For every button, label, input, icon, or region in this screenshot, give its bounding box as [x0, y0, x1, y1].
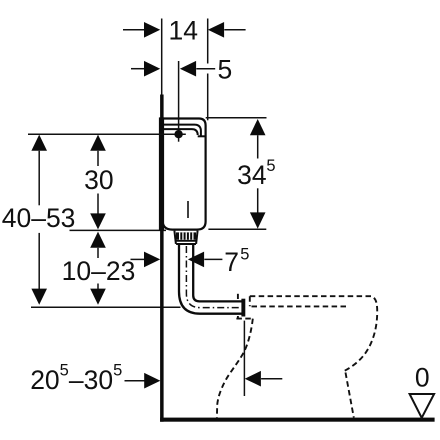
floor: [160, 418, 435, 422]
wall: [160, 95, 164, 422]
svg-text:5: 5: [218, 55, 233, 85]
dim 10-23 down arrow: [97, 284, 99, 290]
cistern lid inner line: [160, 125, 201, 136]
dim 5 right arrow: [180, 61, 196, 77]
dim 10-23 up arrow: [90, 232, 106, 248]
extension line wall top: [161, 19, 163, 95]
extension line fixing horizontal: [28, 133, 186, 135]
cistern back wall line: [159, 117, 164, 230]
flush valve clamp band: [176, 232, 196, 239]
pipe end connector: [241, 299, 245, 317]
svg-text:30: 30: [84, 165, 113, 195]
extension line pipe centre left: [31, 306, 181, 308]
svg-text:5: 5: [266, 157, 275, 175]
dim 34.5 down arrow: [257, 188, 259, 212]
pan socket corner: [249, 296, 251, 306]
level datum triangle: [410, 394, 435, 418]
svg-text:7: 7: [224, 247, 239, 277]
dim 20.5-30.5 pan arrow: [245, 371, 261, 387]
svg-text:0: 0: [415, 363, 430, 393]
svg-text:14: 14: [168, 16, 197, 46]
svg-text:40–53: 40–53: [2, 203, 76, 233]
flush pipe outer: [179, 244, 242, 314]
dim 5 left arrow: [131, 68, 144, 70]
dim 34.5 up arrow: [250, 119, 266, 135]
cistern body: [163, 119, 206, 230]
flush valve right side: [196, 231, 198, 244]
extension line cistern front (dim 14): [207, 19, 209, 64]
flush valve left side: [174, 231, 176, 244]
pan seat line: [252, 305, 347, 307]
svg-text:10–23: 10–23: [62, 256, 136, 286]
extension line pan outlet: [243, 321, 245, 396]
cistern lid seam line: [160, 129, 198, 135]
svg-text:5: 5: [240, 246, 249, 264]
dim 40-53 down arrow: [38, 233, 40, 289]
flush valve flange lines: [176, 240, 197, 242]
pipe centre line vertical: [186, 246, 240, 308]
dim 20.5-30.5 wall arrow: [125, 380, 145, 382]
dim 14 left arrow: [123, 29, 144, 31]
pan top and right outline: [250, 296, 377, 371]
dim 40-53 up arrow: [31, 135, 47, 151]
dim 14 right arrow: [208, 22, 224, 38]
pan spigot hidden edge: [237, 294, 239, 299]
flush pipe inner: [193, 244, 242, 301]
dim 7.5 left arrow: [131, 258, 145, 260]
extension line fixing vertical (dim 5): [178, 61, 180, 142]
pan socket bottom: [236, 318, 252, 320]
dim 30 up arrow: [90, 135, 106, 151]
dim 30 down arrow: [97, 194, 99, 214]
extension line cistern bottom right: [208, 228, 266, 230]
fixing point: [174, 130, 182, 138]
dim 7.5 right arrow: [188, 252, 204, 268]
internal flush tube hint: [187, 201, 189, 218]
pan rear leg: [346, 373, 354, 418]
svg-text:205–305: 205–305: [30, 362, 122, 395]
lid step: [198, 135, 206, 137]
extension line cistern top right: [206, 117, 267, 119]
svg-text:34: 34: [237, 160, 266, 190]
extension line cistern bottom left: [70, 229, 167, 231]
pan front leg: [217, 319, 253, 418]
